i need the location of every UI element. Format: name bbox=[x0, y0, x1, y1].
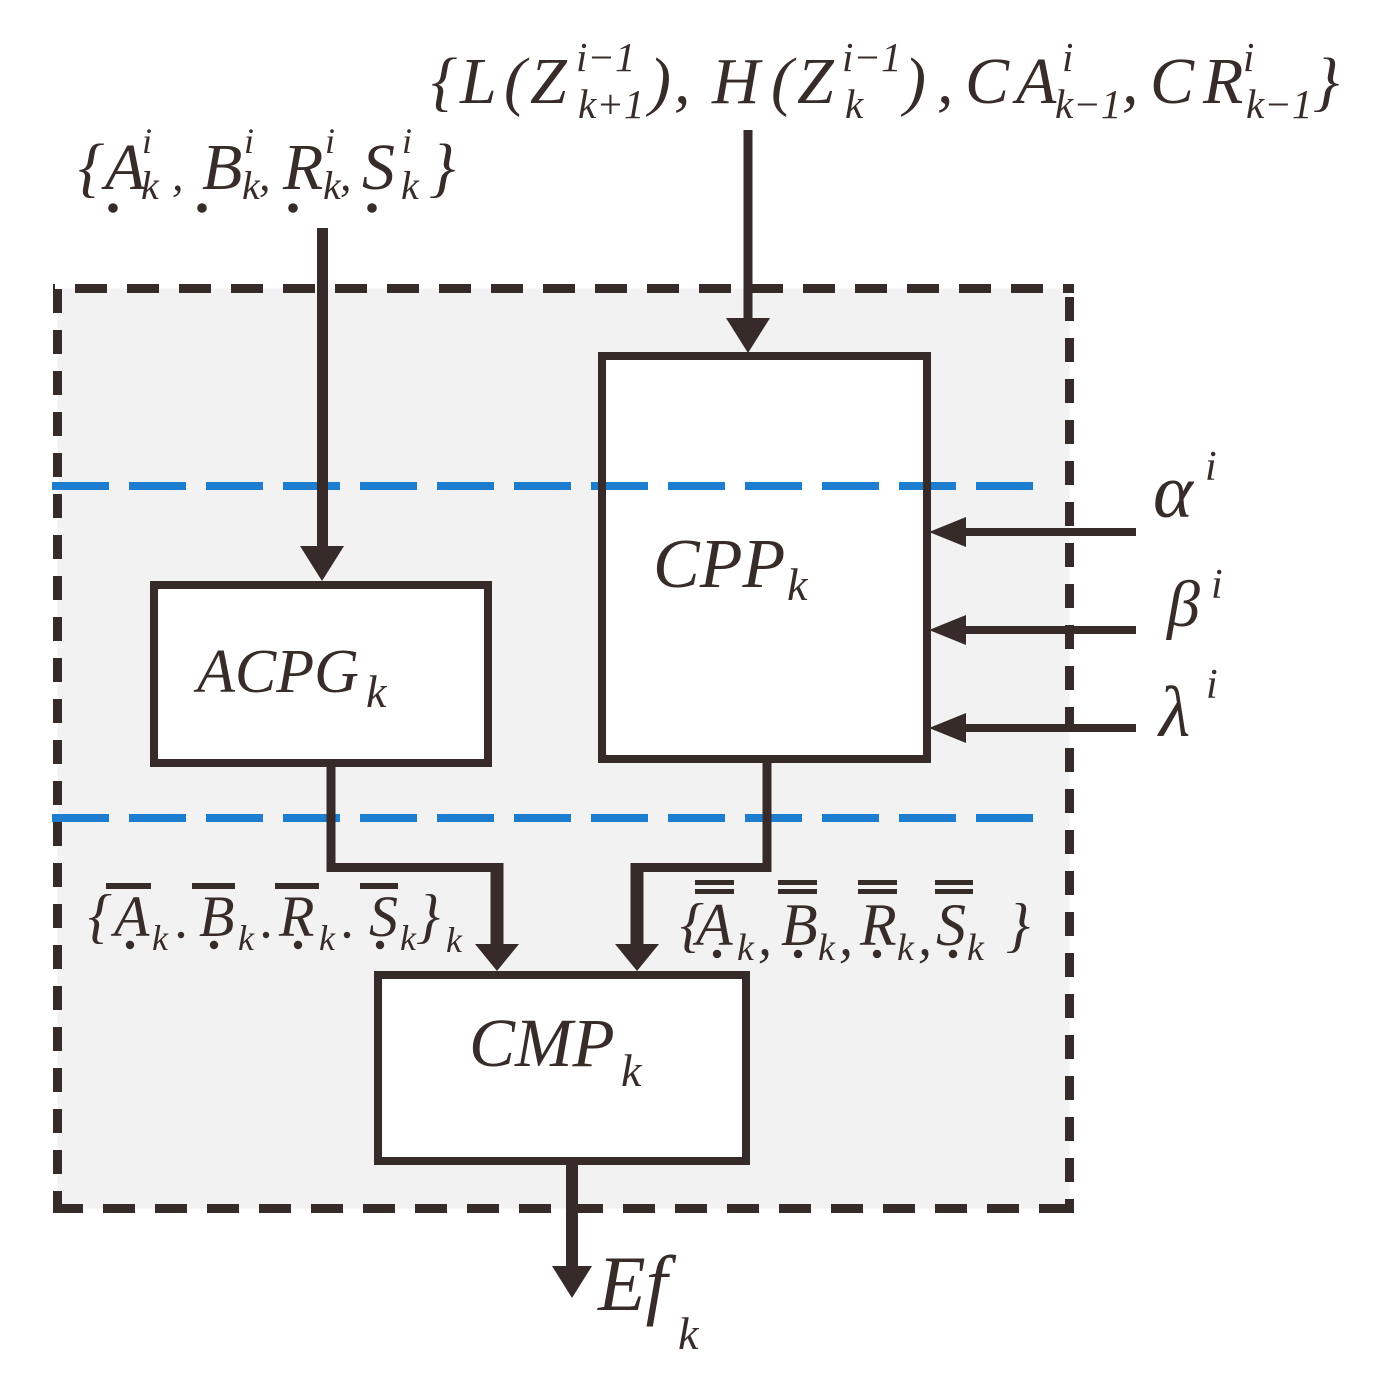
alpha input arrow bbox=[929, 517, 1136, 547]
svg-text:k+1: k+1 bbox=[578, 81, 644, 127]
svg-text:k: k bbox=[400, 918, 417, 958]
svg-text:C: C bbox=[965, 45, 1010, 118]
svg-text:,: , bbox=[340, 149, 352, 200]
svg-text:B: B bbox=[781, 892, 818, 958]
input label {A.B.R.S} top-left bbox=[78, 121, 455, 213]
svg-text:R: R bbox=[278, 884, 314, 949]
svg-text:i: i bbox=[1205, 444, 1217, 490]
svg-text:,: , bbox=[839, 906, 853, 968]
svg-text:A: A bbox=[1012, 45, 1057, 118]
svg-text:L: L bbox=[459, 45, 497, 118]
svg-text:,: , bbox=[259, 149, 271, 200]
dashed boundary bottom edge bbox=[53, 1204, 1074, 1213]
svg-text:k: k bbox=[621, 1045, 643, 1096]
svg-text:k: k bbox=[401, 163, 420, 208]
beta label bbox=[1165, 562, 1223, 641]
svg-text:A: A bbox=[692, 892, 733, 958]
svg-text:k: k bbox=[737, 927, 755, 969]
wire CPP_k output elbow to CMP_k bbox=[615, 763, 772, 971]
svg-text:R: R bbox=[282, 131, 323, 204]
svg-text:H: H bbox=[711, 45, 763, 118]
wire arrow into ACPG_k bbox=[300, 228, 344, 581]
svg-text:Ef: Ef bbox=[597, 1240, 677, 1327]
beta input arrow bbox=[929, 615, 1136, 645]
svg-text:i: i bbox=[244, 121, 254, 161]
intermediate label {A,B,R,S}k single overbar bbox=[88, 883, 463, 960]
svg-text:k: k bbox=[238, 918, 255, 958]
svg-text:α: α bbox=[1153, 450, 1195, 534]
svg-text:,: , bbox=[937, 45, 954, 118]
svg-text:R: R bbox=[859, 892, 897, 958]
blue pipeline stage divider line 1 bbox=[52, 482, 1040, 490]
svg-text:k: k bbox=[787, 559, 809, 610]
svg-text:k−1: k−1 bbox=[1246, 81, 1312, 127]
svg-text:,: , bbox=[758, 906, 772, 968]
svg-text:}: } bbox=[1313, 45, 1339, 118]
svg-text:,: , bbox=[918, 906, 932, 968]
svg-text:i−1: i−1 bbox=[576, 34, 636, 80]
svg-text:{: { bbox=[78, 131, 104, 204]
block CPP_k border bbox=[602, 356, 927, 759]
svg-text:Z: Z bbox=[797, 45, 835, 118]
svg-text:k: k bbox=[141, 163, 160, 208]
wire ACPG_k output elbow to CMP_k bbox=[327, 767, 520, 971]
svg-text:B: B bbox=[202, 131, 242, 204]
svg-text:ACPG: ACPG bbox=[193, 638, 359, 706]
svg-text:,: , bbox=[1122, 45, 1139, 118]
svg-text:CMP: CMP bbox=[469, 1005, 615, 1081]
svg-text:): ) bbox=[645, 45, 671, 118]
svg-text:CPP: CPP bbox=[653, 526, 785, 603]
svg-text:k: k bbox=[678, 1308, 700, 1359]
wire arrow into CPP_k bbox=[726, 130, 770, 353]
block ACPG_k fill bbox=[154, 585, 488, 763]
svg-text:i: i bbox=[1243, 34, 1254, 80]
svg-text:β: β bbox=[1165, 568, 1200, 641]
svg-text:}: } bbox=[416, 883, 440, 949]
svg-text:,: , bbox=[674, 45, 691, 118]
svg-text:i: i bbox=[1206, 662, 1218, 708]
svg-text:λ: λ bbox=[1157, 672, 1190, 752]
blue pipeline stage divider line 2 bbox=[52, 814, 1041, 822]
svg-text:S: S bbox=[936, 892, 966, 958]
svg-text:,: , bbox=[172, 149, 184, 200]
svg-text:i: i bbox=[1062, 34, 1073, 80]
output label Ef_k bbox=[597, 1240, 700, 1359]
svg-text:S: S bbox=[369, 884, 398, 949]
svg-text:i: i bbox=[402, 121, 412, 161]
alpha label bbox=[1153, 444, 1217, 534]
svg-text:k: k bbox=[897, 927, 915, 969]
svg-text:i: i bbox=[1211, 562, 1223, 608]
svg-text:i: i bbox=[142, 121, 152, 161]
svg-text:k: k bbox=[818, 927, 836, 969]
svg-text:S: S bbox=[362, 131, 395, 204]
svg-text:k: k bbox=[152, 918, 169, 958]
svg-text:R: R bbox=[1202, 45, 1243, 118]
svg-text:B: B bbox=[199, 884, 234, 949]
svg-text:{: { bbox=[88, 883, 112, 949]
block CPP_k fill bbox=[602, 356, 927, 759]
svg-text:k−1: k−1 bbox=[1055, 81, 1121, 127]
svg-text:(: ( bbox=[771, 45, 797, 118]
dashed boundary top edge bbox=[53, 284, 1074, 293]
svg-text:{: { bbox=[431, 45, 457, 118]
svg-text:k: k bbox=[319, 918, 336, 958]
svg-text:A: A bbox=[101, 131, 146, 204]
svg-text:k: k bbox=[845, 81, 864, 127]
input label {L(Z),H(Z),CA,CR} top bbox=[431, 34, 1339, 127]
svg-text:k: k bbox=[446, 920, 463, 960]
svg-text:(: ( bbox=[504, 45, 530, 118]
wire arrow CMP_k output bbox=[552, 1165, 592, 1298]
svg-text:k: k bbox=[366, 666, 388, 717]
intermediate label {A,B,R,S} double overbar bbox=[680, 880, 1030, 969]
block CMP_k border bbox=[378, 975, 746, 1161]
block CMP_k fill bbox=[378, 975, 746, 1161]
svg-text:}: } bbox=[429, 131, 455, 204]
svg-text:C: C bbox=[1150, 45, 1195, 118]
dashed boundary left edge bbox=[53, 284, 62, 1213]
svg-text:}: } bbox=[1006, 892, 1030, 958]
lambda input arrow bbox=[929, 713, 1136, 743]
svg-text:k: k bbox=[967, 927, 985, 969]
svg-text:A: A bbox=[110, 884, 150, 949]
dashed system boundary panel fill bbox=[58, 289, 1070, 1209]
svg-text:Z: Z bbox=[530, 45, 568, 118]
svg-text:i−1: i−1 bbox=[842, 34, 902, 80]
dashed boundary right edge bbox=[1065, 284, 1074, 1213]
svg-text:): ) bbox=[900, 45, 926, 118]
svg-text:i: i bbox=[325, 121, 335, 161]
lambda label bbox=[1157, 662, 1218, 752]
block ACPG_k border bbox=[154, 585, 488, 763]
